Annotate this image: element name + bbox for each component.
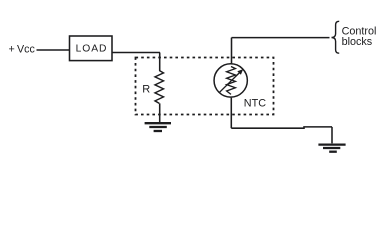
svg-text:Vcc: Vcc [17, 44, 35, 56]
node Vcc label [9, 44, 36, 56]
wire to ground right [331, 127, 333, 143]
ground (under R) [145, 123, 171, 131]
svg-text:+: + [9, 44, 15, 56]
dashed enclosure box [136, 58, 274, 115]
svg-text:R: R [142, 84, 150, 96]
wire NTC node to control blocks [232, 37, 330, 39]
ground (bottom right) [318, 145, 345, 152]
brace for control blocks [332, 21, 340, 53]
wire bottom rail [231, 127, 332, 128]
wire LOAD to node A [112, 52, 160, 54]
wire NTC to bottom rail [230, 98, 232, 129]
svg-text:NTC: NTC [244, 98, 266, 110]
wire control line down to NTC [231, 38, 233, 64]
wire node A down to R [159, 53, 161, 72]
wire R to ground [159, 103, 161, 122]
net label Control blocks [342, 26, 377, 49]
thermistor NTC [214, 64, 247, 97]
resistor R [155, 71, 164, 104]
svg-text:LOAD: LOAD [76, 44, 108, 55]
load block LOAD [70, 36, 113, 61]
wire Vcc to LOAD [37, 49, 70, 51]
svg-text:blocks: blocks [342, 36, 373, 48]
